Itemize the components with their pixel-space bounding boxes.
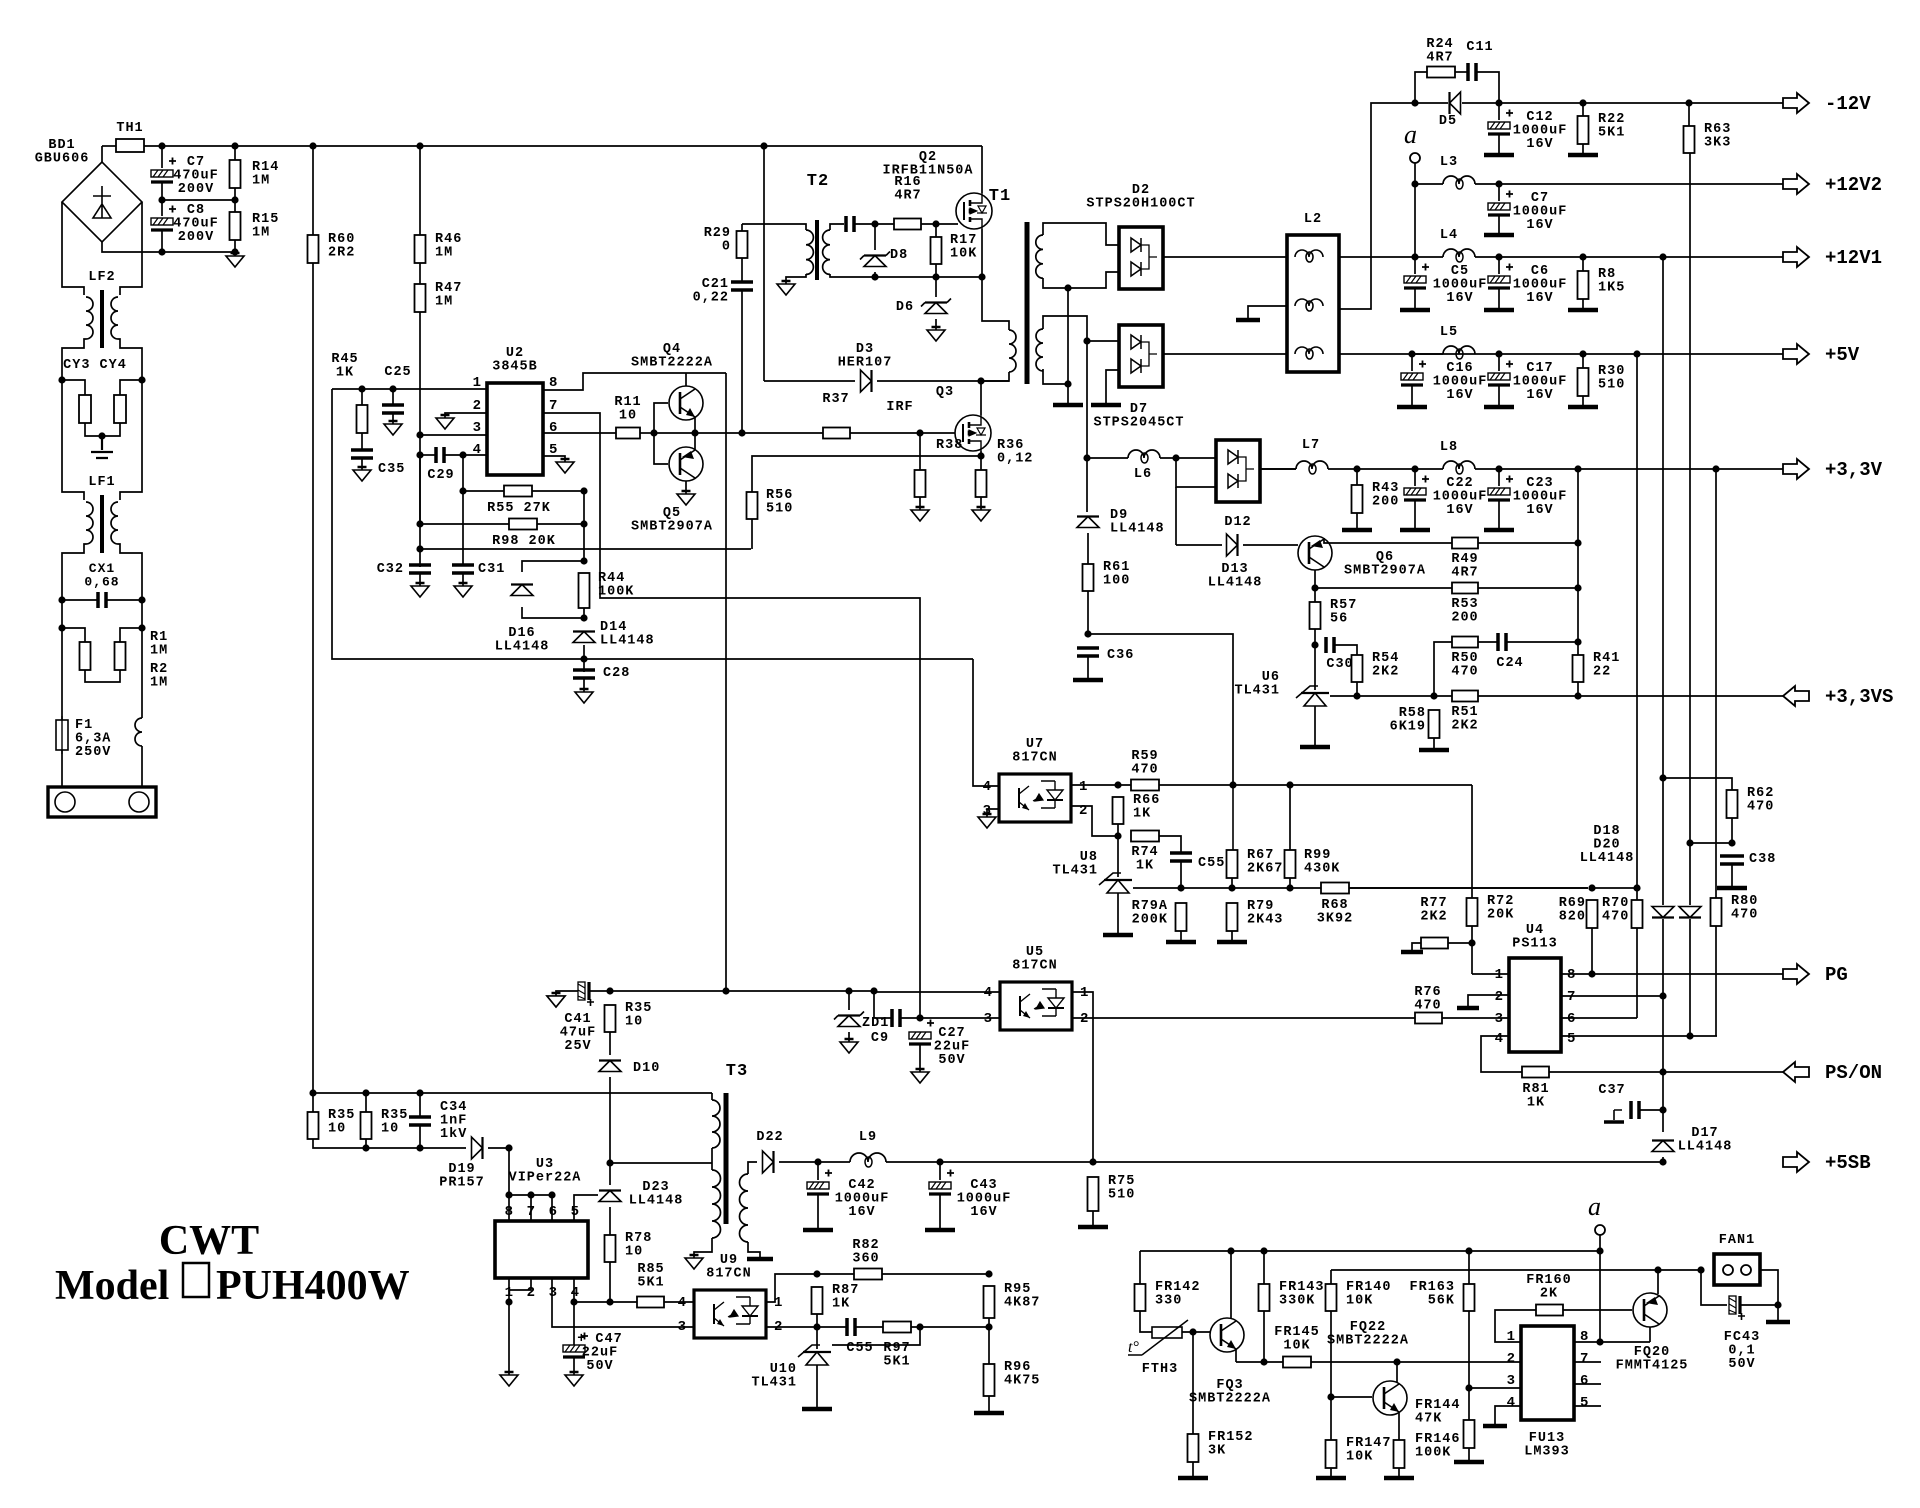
resistor R78 10 [605, 1235, 616, 1262]
junction ref row [1353, 692, 1581, 699]
capacitor CX1 [98, 592, 106, 608]
junction T3 aux [606, 1159, 613, 1166]
svg-text:50V: 50V [938, 1053, 965, 1068]
label L7 [1302, 438, 1320, 453]
svg-text:8: 8 [549, 375, 557, 391]
svg-text:+12V2: +12V2 [1825, 174, 1882, 196]
capacitor C34 1nF 1kV [409, 1117, 431, 1125]
junction dots top bus [158, 142, 423, 149]
wire C24 right [1506, 641, 1578, 643]
svg-text:+5SB: +5SB [1825, 1152, 1871, 1174]
wire R15 bottom [234, 240, 236, 252]
wire U3 top pins row [509, 1194, 552, 1196]
wire FU13 pin6 stub [1574, 1383, 1601, 1385]
wire +3.3V down col [1715, 469, 1717, 898]
connector PG [1783, 964, 1848, 986]
wire C11 down [1476, 72, 1499, 103]
label L2 [1304, 212, 1322, 227]
wire C12 stem [1498, 134, 1500, 153]
wire D3 to T1 [877, 380, 1009, 382]
svg-text:1M: 1M [435, 295, 453, 310]
junction R62 tap [1659, 774, 1666, 781]
pin 1 U4 [1495, 967, 1503, 983]
wire FQ3 collector [1230, 1251, 1232, 1319]
label R66 1K [1133, 793, 1160, 822]
svg-text:C11: C11 [1466, 40, 1493, 55]
diodes inside D12 [1228, 450, 1254, 488]
zener D6 [921, 299, 951, 314]
wire L6 out [1160, 457, 1216, 459]
label T1 [989, 187, 1011, 206]
label FR145 10K [1274, 1325, 1320, 1354]
svg-text:2K2: 2K2 [1451, 719, 1478, 734]
ground below R15 [226, 253, 244, 267]
svg-text:C55: C55 [846, 1341, 873, 1356]
diode D17 LL4148 [1652, 1141, 1674, 1152]
resistor R63 3K3 [1684, 126, 1695, 153]
label C8 [173, 203, 219, 245]
label FQ3 SMBT2222A [1189, 1378, 1271, 1407]
svg-text:CWT: CWT [159, 1218, 259, 1264]
label R35a 10 [328, 1108, 355, 1137]
pin 4 U3 [571, 1285, 579, 1301]
label C25 [384, 365, 411, 380]
wire R59 out [1159, 784, 1472, 786]
label R61 100 [1103, 560, 1130, 589]
resistor R14 1M [230, 160, 241, 188]
label R47 1M [435, 281, 462, 310]
wire U2 pin7 [543, 413, 920, 1018]
capacitor C27 22uF 50V [909, 1020, 934, 1045]
svg-text:200: 200 [1451, 611, 1478, 626]
wire U2 pin6 [543, 432, 616, 434]
resistor FR163 56K [1464, 1284, 1475, 1311]
junction D5 left [1411, 99, 1418, 106]
label D19 PR157 [439, 1162, 485, 1191]
wire C38 link [1690, 842, 1732, 844]
inductor T1 primary [1009, 330, 1016, 372]
svg-text:7: 7 [527, 1204, 535, 1220]
pin 4 U9 [678, 1295, 686, 1311]
ground D6 [927, 327, 945, 341]
svg-text:510: 510 [1598, 378, 1625, 393]
svg-text:4K87: 4K87 [1004, 1296, 1040, 1311]
svg-text:+5V: +5V [1825, 344, 1860, 366]
label FR152 3K [1208, 1430, 1254, 1459]
wire U7 pin1 row [1071, 784, 1131, 786]
junction C21 gate [738, 429, 745, 436]
zener ZD1 [834, 1012, 864, 1027]
wire R16 out [921, 223, 958, 225]
svg-text:C28: C28 [603, 666, 630, 681]
wire C38 stem [1731, 864, 1733, 886]
inductor T1 secondary upper [1036, 235, 1043, 278]
junction standby row [606, 987, 877, 994]
junction +3.3V row1 [1353, 465, 1418, 472]
inductor L4 [1443, 249, 1475, 262]
wire R99 col [1289, 785, 1291, 850]
fan pins [1723, 1265, 1751, 1275]
ground C16 [1397, 405, 1427, 410]
wire BD1 to TH1 [101, 146, 103, 162]
wire L3 lead left [1415, 183, 1443, 185]
resistor R98 20K [509, 519, 537, 530]
wire Q5 base [654, 433, 668, 464]
wire U4 pin5 row [1561, 1035, 1717, 1037]
svg-text:C31: C31 [478, 562, 505, 577]
svg-text:16V: 16V [1526, 291, 1553, 306]
wire R79A bottom [1180, 931, 1182, 940]
wire FR160 out [1563, 1309, 1632, 1311]
thermistor FTH3 [1128, 1320, 1188, 1355]
wire top bus [102, 145, 116, 147]
wire C8 bottom [161, 230, 163, 252]
wire T3 sec top [748, 1162, 757, 1174]
wire R1 R2 bottom [85, 670, 120, 682]
label FQ22 SMBT2222A [1327, 1320, 1409, 1349]
core LF1 [100, 495, 104, 553]
connector FAN1 [1714, 1254, 1760, 1285]
svg-text:LL4148: LL4148 [1580, 851, 1635, 866]
wire C5 top [1414, 257, 1416, 274]
wire Q4 emitter [694, 417, 696, 433]
wire D8 top [874, 224, 876, 250]
svg-text:C36: C36 [1107, 648, 1134, 663]
wire C41 wire [556, 991, 578, 996]
pin 8 U3 [505, 1204, 513, 1220]
pin 4 U5 [984, 985, 992, 1001]
label C30 [1326, 657, 1353, 672]
label t deg [1128, 1339, 1139, 1356]
diode D3 HER107 [861, 370, 872, 392]
junction pin1 row [358, 385, 396, 392]
junction emitters [691, 429, 698, 436]
wire R1 top [62, 628, 85, 642]
wire C17 stem [1498, 385, 1500, 405]
wire U3 pin7 stub [530, 1195, 532, 1221]
junction R98 right [580, 520, 587, 527]
wire R43 top [1356, 469, 1358, 485]
label D8 [890, 248, 908, 263]
ground FR144 [1454, 1460, 1484, 1465]
svg-text:1: 1 [1080, 985, 1088, 1001]
wire D22 out [779, 1161, 850, 1163]
label R49 4R7 [1451, 552, 1478, 581]
wire Q3 source [980, 451, 982, 456]
wire FR147 bottom [1330, 1468, 1332, 1476]
wire R96 top [988, 1327, 990, 1364]
svg-text:16V: 16V [1526, 503, 1553, 518]
junction C37 [1659, 1106, 1666, 1113]
label T3 [726, 1062, 748, 1081]
wire L3 feed [1414, 184, 1416, 257]
svg-text:25V: 25V [564, 1039, 591, 1054]
pin 7 U4 [1567, 989, 1575, 1005]
wire Q5 collector [685, 481, 687, 494]
resistor R43 200 [1352, 485, 1363, 513]
ground C23 [1484, 528, 1514, 533]
wire F1 top [61, 628, 63, 720]
wire +12V1 down col [1662, 257, 1664, 778]
ground CY mid bar [91, 436, 113, 458]
wire U7 pin2 [1071, 806, 1118, 836]
wire Q2 drain [981, 146, 983, 193]
svg-text:+12V1: +12V1 [1825, 247, 1882, 269]
resistor R68 3K92 [1321, 883, 1349, 894]
ground R75 [1078, 1225, 1108, 1230]
pin 1 U9 [774, 1295, 782, 1311]
wire U3 pin3 [552, 1278, 694, 1327]
ground R77 [1401, 950, 1423, 955]
junction C27 [916, 1014, 923, 1021]
svg-text:8: 8 [505, 1204, 513, 1220]
svg-text:10: 10 [625, 1245, 643, 1260]
wire +12V1 row L2 [1339, 256, 1415, 258]
svg-text:100K: 100K [598, 585, 634, 600]
wire U3 pin4 [573, 1278, 575, 1302]
resistor R24 4R7 [1427, 67, 1455, 78]
wire FQ20 collector [1649, 1327, 1651, 1342]
resistor R50 470 [1452, 637, 1478, 648]
wire FAN1 right [1760, 1270, 1778, 1305]
svg-text:250V: 250V [75, 745, 111, 760]
label R16 4R7 [894, 175, 921, 204]
connector +12V1 [1783, 247, 1882, 269]
wire FR140 top [1330, 1270, 1332, 1284]
resistor R45 [357, 405, 368, 433]
pin 4 U7 [983, 779, 991, 795]
ground centertap bar [1053, 403, 1083, 408]
diode D18 LL4148 [1652, 907, 1674, 918]
wire N choke top [141, 628, 143, 718]
resistor FR145 10K [1283, 1357, 1311, 1368]
junction U3 pin4 [570, 1298, 577, 1305]
wire D9 R61 [1087, 533, 1089, 564]
ground C7b [1484, 233, 1514, 238]
ground C35 [353, 467, 371, 481]
wire U3 pin6 stub [551, 1195, 553, 1221]
ground ZD1 [840, 1039, 858, 1053]
svg-text:16V: 16V [970, 1205, 997, 1220]
wire D13 col [1175, 487, 1177, 545]
label R58 6K19 [1390, 706, 1426, 735]
wire D10 down [609, 1077, 611, 1163]
pin 2 U3 [527, 1285, 535, 1301]
wire T2 sec top [830, 224, 844, 230]
wire Vref to Q4 collector [686, 372, 726, 374]
wire C55 bottom [1180, 861, 1182, 888]
svg-text:100K: 100K [1415, 1446, 1451, 1461]
label R53 200 [1451, 597, 1478, 626]
label L9 [859, 1130, 877, 1145]
label R1 1M [150, 630, 168, 659]
junction pin1 row right [1229, 781, 1293, 788]
wire R80 down [1715, 926, 1717, 1036]
svg-text:2K2: 2K2 [1372, 665, 1399, 680]
wire FR142 col [1139, 1251, 1141, 1284]
wire FQ22 base wire [1331, 1396, 1372, 1398]
wire D12 in2 [1176, 458, 1216, 487]
wire D23 top [609, 1163, 611, 1185]
capacitor C21 0,22 [731, 282, 753, 290]
label FR147 10K [1346, 1436, 1392, 1465]
wire T2 prim bottom [786, 274, 806, 284]
wire C24 lead [1478, 641, 1498, 643]
pin 2 U4 [1495, 989, 1503, 1005]
svg-text:10K: 10K [950, 247, 977, 262]
wire T1 sec2 top [1043, 316, 1087, 341]
svg-text:C55: C55 [1198, 856, 1225, 871]
svg-text:1K: 1K [832, 1297, 850, 1312]
wire C7 bottom [161, 182, 163, 200]
wire source row [875, 276, 982, 278]
wire FTH3 out [1182, 1331, 1210, 1333]
wire U2 pin3 [420, 434, 487, 436]
wire C28 stem [583, 678, 585, 692]
junction D7 in [1083, 337, 1090, 344]
ground U2 pin5 [556, 459, 574, 473]
pin 3 U4 [1495, 1011, 1503, 1027]
wire Q6 collector [1314, 570, 1316, 588]
svg-text:2: 2 [1080, 1011, 1088, 1027]
diode D9 LL4148 [1077, 517, 1099, 528]
wire U2 pin8 [543, 373, 686, 390]
resistor R16 4R7 [894, 219, 921, 230]
connector -12V [1783, 93, 1871, 115]
junction Q6 collector [1311, 584, 1318, 591]
junction T1 centertap top [1064, 284, 1071, 291]
wire R67 column [1230, 785, 1233, 850]
wire fan row2 [1331, 1269, 1701, 1271]
wire C32 row to R56 [420, 548, 751, 550]
wire R70 down [1636, 928, 1638, 1018]
wire R38 col [919, 433, 921, 470]
wire U4 pin8 row [1561, 973, 1783, 975]
svg-text:4R7: 4R7 [894, 189, 921, 204]
svg-text:1K: 1K [336, 366, 354, 381]
svg-text:a: a [1404, 120, 1417, 149]
label R55 27K [487, 501, 551, 516]
wire R30 top [1582, 354, 1584, 368]
inductor L8 [1443, 461, 1475, 474]
label R69 820 [1559, 896, 1586, 925]
transistor Q2 IRFB11N50A [956, 193, 992, 229]
label T2 [807, 172, 829, 191]
wire FR152 col [1192, 1332, 1194, 1434]
pin 3 FU13 [1507, 1373, 1515, 1389]
resistor R67 2K67 [1227, 850, 1238, 878]
junction +12V1 row [1495, 253, 1666, 260]
wire N choke bottom [141, 746, 143, 787]
wire snubber row top [313, 1092, 712, 1094]
wire R54 bottom [1356, 682, 1358, 696]
svg-text:200K: 200K [1132, 913, 1168, 928]
junction R55 left [459, 487, 466, 494]
svg-text:10: 10 [381, 1122, 399, 1137]
ground C28 [575, 689, 593, 703]
svg-text:3: 3 [1495, 1011, 1503, 1027]
junction ct bottom [1064, 380, 1071, 387]
ground C41 [547, 993, 565, 1007]
pin 3 U5 [984, 1011, 992, 1027]
svg-text:470: 470 [1131, 763, 1158, 778]
junction R17 top [932, 220, 939, 227]
svg-text:10K: 10K [1346, 1450, 1373, 1465]
label R79 2K43 [1247, 899, 1283, 928]
ground L2 mid [1236, 318, 1260, 323]
svg-text:470: 470 [1602, 910, 1629, 925]
svg-text:SMBT2907A: SMBT2907A [631, 520, 713, 535]
wire R22 stem [1582, 144, 1584, 153]
pin 1 U2 [473, 375, 481, 391]
pin 8 U4 [1567, 967, 1575, 983]
svg-text:16V: 16V [1446, 503, 1473, 518]
ground U7 pin3 [978, 814, 996, 828]
wire FR146 leads [1398, 1424, 1400, 1440]
pin 8 FU13 [1580, 1329, 1588, 1345]
wire Q6 emitter [1324, 538, 1452, 543]
svg-text:C29: C29 [427, 468, 454, 483]
wire D16 loop top [522, 561, 584, 572]
junction +5V row [1408, 350, 1640, 357]
wire R45 C35 [361, 433, 363, 450]
svg-text:470: 470 [1451, 665, 1478, 680]
capacitor C25 [382, 405, 404, 413]
label R81 1K [1522, 1082, 1549, 1111]
label R96 4K75 [1004, 1360, 1040, 1389]
junction -12V row [1579, 99, 1692, 106]
wire R35a leads [312, 1093, 314, 1112]
wire R2 top [120, 628, 142, 642]
inductor T3 aux [712, 1170, 721, 1238]
wire R81 to PSON [1549, 1071, 1783, 1073]
capacitor C31 [452, 565, 474, 573]
svg-text:L6: L6 [1134, 467, 1152, 482]
label C6 [1513, 264, 1568, 306]
wire L4 lead [1415, 256, 1443, 258]
junction Q3 drain [977, 377, 984, 384]
junction R1R2 row [58, 624, 145, 631]
wire R37 to Q3 [850, 432, 955, 434]
svg-text:6: 6 [1580, 1373, 1588, 1389]
capacitor C7 470uF 200V [151, 158, 176, 183]
svg-text:7: 7 [549, 398, 557, 414]
svg-text:STPS2045CT: STPS2045CT [1093, 416, 1184, 431]
wire C8 top [161, 200, 163, 216]
wire R44 bottom [583, 608, 585, 620]
label FR163 56K [1409, 1280, 1455, 1309]
ground T3 aux [685, 1255, 703, 1269]
wire snubber bottom [313, 1139, 466, 1148]
wire pin1 row [332, 388, 487, 390]
wire C6 top [1498, 257, 1500, 274]
wire U5 pin1 [1072, 992, 1093, 1162]
node a bottom [1595, 1225, 1605, 1235]
capacitor C35 [351, 450, 373, 458]
wire FR143 bottom [1263, 1311, 1265, 1362]
wire D18 down [1662, 919, 1664, 996]
svg-text:D12: D12 [1224, 515, 1251, 530]
label R80 470 [1731, 894, 1758, 923]
wire T2 prim top [742, 224, 806, 230]
svg-text:2K43: 2K43 [1247, 913, 1283, 928]
svg-text:5K1: 5K1 [883, 1355, 910, 1370]
junction CY mid [98, 432, 105, 439]
svg-text:10: 10 [625, 1015, 643, 1030]
ground U4 pin2 [1457, 1006, 1479, 1011]
wire R77 gnd lead [1412, 943, 1421, 950]
capacitor C36 [1077, 648, 1099, 656]
